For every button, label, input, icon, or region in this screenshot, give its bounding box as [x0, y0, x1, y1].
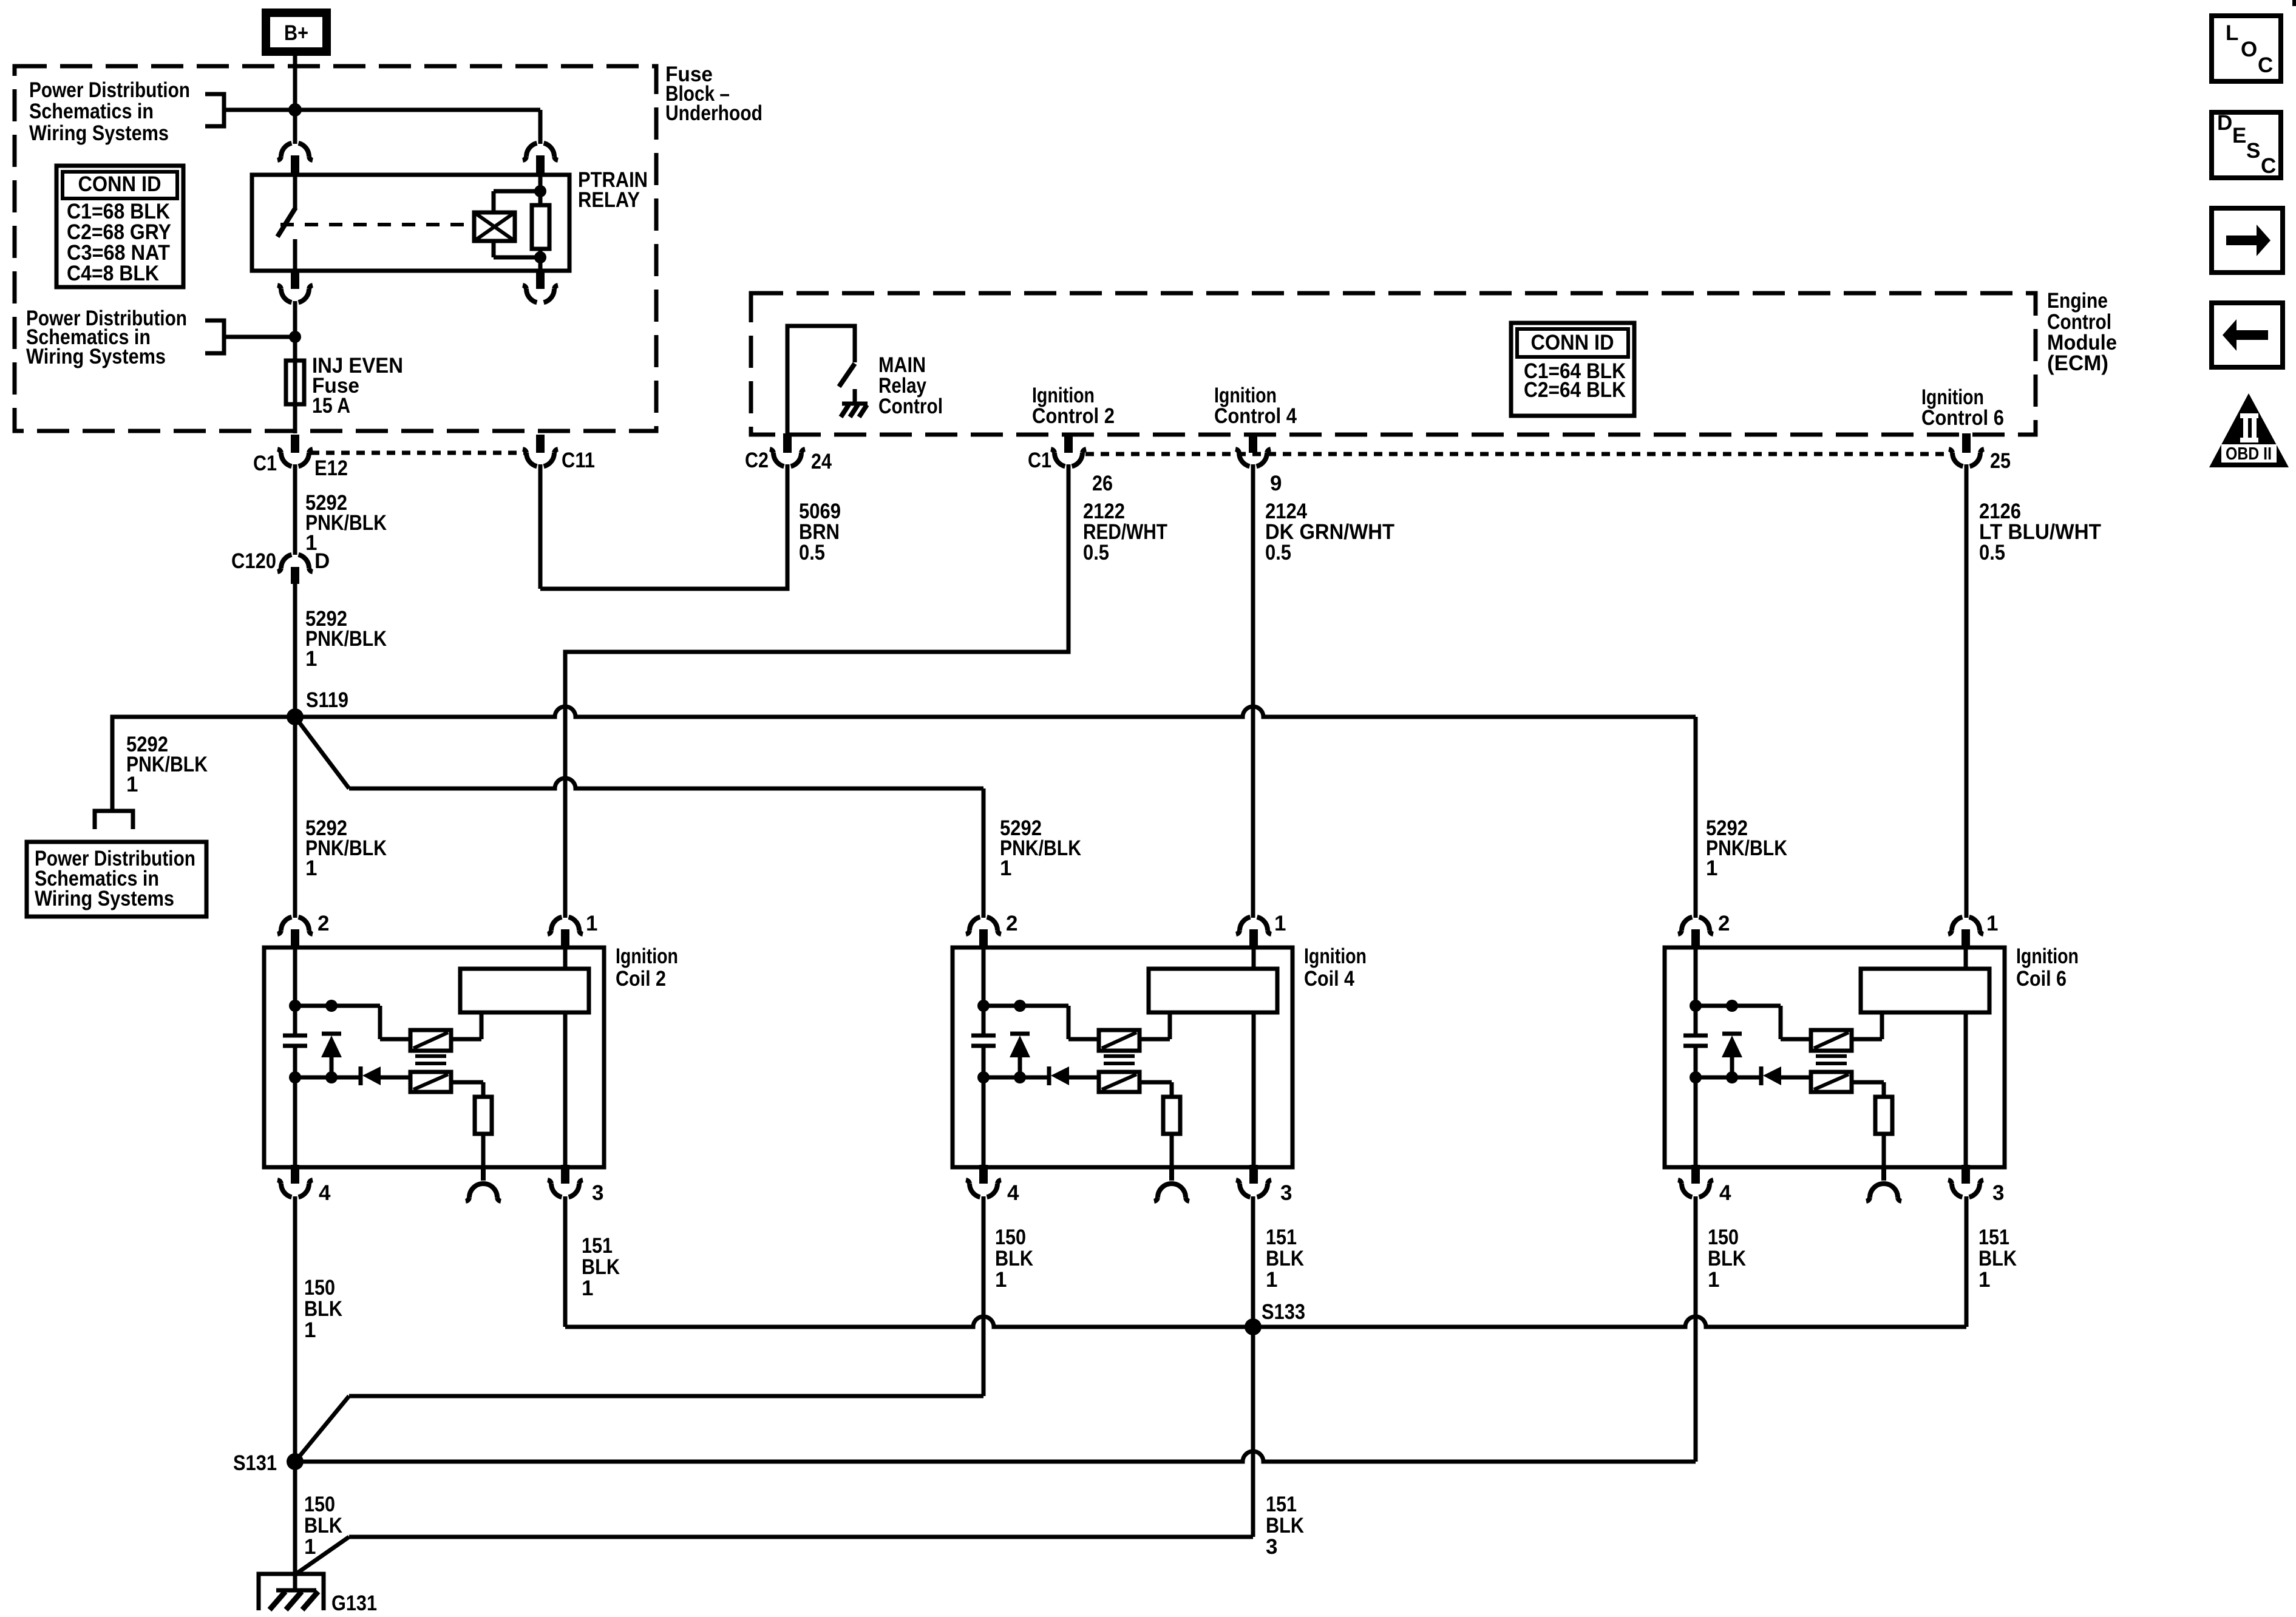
icon: LOC box — [2212, 16, 2281, 81]
coil 6 secondary winding — [1811, 1072, 1852, 1092]
svg-text:1: 1 — [304, 1535, 316, 1559]
relay pin line bottom — [538, 257, 543, 271]
relay junction dots — [534, 185, 546, 197]
coil 6 HV tower block — [1861, 969, 1989, 1012]
ignition coil 4 box — [953, 947, 1292, 1167]
connector cup: coil 4 pin 2 — [966, 917, 1001, 934]
svg-text:BLK: BLK — [582, 1255, 620, 1279]
connector cup: coil 4 pin 1 — [1236, 917, 1271, 934]
coil 6 capacitor — [1683, 1034, 1708, 1038]
coil 4 primary-to-tower lead — [1140, 1037, 1170, 1042]
coil 6 middle pin — [1881, 1166, 1886, 1181]
svg-text:1: 1 — [126, 773, 138, 796]
icon: forward arrow box — [2212, 208, 2283, 273]
coil 6 secondary lead — [1852, 1080, 1884, 1085]
svg-text:26: 26 — [1092, 472, 1113, 495]
svg-text:G131: G131 — [331, 1592, 377, 1615]
coil 4 transformer core — [1104, 1054, 1135, 1058]
relay coil leads — [492, 191, 496, 212]
splice S119 — [287, 708, 304, 725]
svg-text:PNK/BLK: PNK/BLK — [126, 753, 208, 776]
svg-text:BLK: BLK — [1266, 1514, 1304, 1537]
junction dot — [288, 103, 302, 117]
svg-text:3: 3 — [1266, 1535, 1277, 1559]
wire: coil6 pin4 down — [1694, 1196, 1698, 1462]
svg-text:BLK: BLK — [1266, 1247, 1304, 1270]
connector cup: relay pin (right top) — [523, 143, 558, 160]
coil 4 secondary winding — [1099, 1072, 1140, 1092]
connector cup: relay pin (right bottom) — [536, 269, 545, 289]
svg-text:150: 150 — [1708, 1225, 1739, 1249]
svg-text:BLK: BLK — [995, 1247, 1033, 1270]
coil 4 HV tower block — [1149, 969, 1277, 1012]
connector cup: coil 6 pin 1 — [1948, 917, 1983, 934]
connector face dotted line (ECM) — [1085, 452, 1948, 456]
svg-text:E12: E12 — [314, 456, 348, 480]
svg-text:0.5: 0.5 — [1083, 541, 1109, 564]
connector cup: coil 2 pin 2 — [277, 917, 313, 934]
svg-text:C4=8 BLK: C4=8 BLK — [67, 262, 159, 285]
wire: ignition control 6 (2126) — [1965, 464, 1969, 918]
svg-text:C1: C1 — [1028, 449, 1051, 472]
coil 2 lower node line — [295, 1076, 359, 1080]
wire: C1 to C120 — [293, 464, 297, 555]
icon: back arrow box — [2212, 303, 2283, 367]
svg-text:1: 1 — [1000, 856, 1011, 880]
coil 2 HV tower block — [460, 969, 589, 1012]
icon: OBD II triangle — [2209, 393, 2289, 467]
coil 6 primary winding — [1811, 1030, 1852, 1051]
coil 6 primary feed line — [1694, 949, 1698, 1036]
coil 2 node dots — [289, 1000, 301, 1012]
chassis ground (ECM internal) — [842, 402, 868, 406]
svg-text:3: 3 — [1280, 1181, 1292, 1205]
svg-text:BLK: BLK — [304, 1514, 342, 1537]
wire: fuse to connector C1 — [293, 404, 297, 433]
coil 2 top node line — [295, 1004, 380, 1008]
engine control module dashed box — [751, 293, 2036, 435]
page edge mark — [2292, 0, 2296, 6]
coil 6 top node line — [1696, 1004, 1781, 1008]
svg-text:C: C — [2258, 53, 2273, 77]
svg-text:E: E — [2232, 124, 2246, 147]
svg-text:150: 150 — [995, 1225, 1026, 1249]
wire: coil4 pin3 to S133 — [1251, 1196, 1255, 1327]
svg-text:9: 9 — [1270, 472, 1282, 495]
svg-text:CONN ID: CONN ID — [78, 172, 161, 196]
svg-text:Power Distribution: Power Distribution — [29, 78, 190, 102]
svg-text:C: C — [2261, 154, 2276, 178]
coil 4 top node line — [983, 1004, 1068, 1008]
coil 4 pin1 internal line — [1252, 949, 1256, 969]
svg-text:Control 6: Control 6 — [1921, 406, 2004, 430]
svg-text:S119: S119 — [306, 688, 348, 712]
svg-text:C1: C1 — [253, 452, 277, 475]
svg-text:151: 151 — [1266, 1493, 1297, 1516]
coil 6 pin1 internal line — [1964, 949, 1968, 969]
wire: bracket to fuse wire — [224, 335, 295, 339]
svg-text:2: 2 — [318, 912, 329, 935]
svg-text:S: S — [2246, 139, 2260, 163]
coil 4 internal resistor — [1163, 1097, 1180, 1134]
svg-text:1: 1 — [1708, 1268, 1719, 1292]
coil 6 node dots — [1690, 1000, 1702, 1012]
svg-text:0.5: 0.5 — [799, 541, 825, 564]
fuse INJ EVEN 15A — [286, 361, 304, 404]
coil 6 diode — [1759, 1066, 1764, 1085]
wire: C120 to S119 — [293, 584, 297, 717]
wire: S119 to coil 6 pin 2 — [295, 707, 1696, 717]
svg-text:PNK/BLK: PNK/BLK — [1000, 836, 1081, 860]
coil 4 capacitor — [971, 1034, 996, 1038]
svg-text:4: 4 — [1007, 1181, 1019, 1205]
coil 6 primary-to-tower lead — [1852, 1037, 1882, 1042]
svg-text:151: 151 — [582, 1234, 613, 1258]
coil 2 secondary lead — [451, 1080, 483, 1085]
svg-text:C2: C2 — [745, 449, 769, 472]
svg-text:BLK: BLK — [304, 1297, 342, 1321]
svg-text:PNK/BLK: PNK/BLK — [305, 836, 387, 860]
relay coil (crossed box) — [474, 212, 515, 241]
wire: S133 down to 151 line — [1251, 1327, 1255, 1537]
ground bus S133 line — [565, 1317, 1253, 1327]
connector cup: coil 4 pin 4 — [979, 1165, 988, 1184]
off-page bracket (mid note) — [205, 320, 224, 353]
wire: S119 diagonal to coil 4 pin 2 — [295, 717, 349, 788]
svg-text:0.5: 0.5 — [1265, 541, 1291, 564]
svg-text:150: 150 — [304, 1276, 335, 1300]
svg-text:OBD II: OBD II — [2226, 444, 2272, 464]
svg-text:S133: S133 — [1262, 1300, 1305, 1324]
coil 4 diode — [1047, 1066, 1051, 1085]
fuse block conn id table — [56, 166, 183, 287]
svg-text:RELAY: RELAY — [578, 188, 640, 212]
svg-text:Underhood: Underhood — [665, 101, 763, 125]
coil 6 lower node line — [1696, 1076, 1760, 1080]
svg-text:0.5: 0.5 — [1979, 541, 2005, 564]
svg-text:Wiring Systems: Wiring Systems — [35, 887, 174, 910]
svg-text:B+: B+ — [284, 21, 308, 45]
wire: coil2 pin3 to S133 — [563, 1196, 568, 1327]
ground G131 chassis mark — [276, 1588, 316, 1593]
svg-text:151: 151 — [1978, 1225, 2009, 1249]
relay resistor — [532, 205, 549, 249]
svg-text:1: 1 — [1706, 856, 1717, 880]
wire: main relay control 5069 — [540, 464, 787, 589]
svg-text:15 A: 15 A — [312, 394, 350, 418]
svg-text:Control: Control — [878, 395, 943, 418]
ECM pin 25 — [1962, 433, 1971, 453]
svg-text:C2=64 BLK: C2=64 BLK — [1524, 378, 1626, 402]
coil 2 secondary winding — [410, 1072, 451, 1092]
svg-text:1: 1 — [586, 912, 597, 935]
svg-text:Coil 6: Coil 6 — [2016, 967, 2067, 991]
wire: ignition control 2 (2122) — [565, 464, 1068, 918]
coil 4 secondary lead — [1140, 1080, 1172, 1085]
connector C11 (fuse block exit) — [536, 435, 545, 453]
battery feed B+ box — [266, 13, 327, 52]
wire: S119 branch left — [112, 717, 295, 810]
svg-text:1: 1 — [305, 531, 317, 555]
ECM pin C1/26 — [1064, 433, 1073, 453]
connector cup: relay pin (left top) — [277, 143, 313, 160]
svg-text:1: 1 — [305, 647, 317, 671]
coil 4 lower node line — [983, 1076, 1048, 1080]
coil 6 internal resistor — [1875, 1097, 1892, 1134]
svg-text:PNK/BLK: PNK/BLK — [1706, 836, 1787, 860]
coil 4 zener diode — [1010, 1032, 1030, 1036]
wire: B+ down to relay — [293, 56, 297, 144]
svg-text:3: 3 — [1992, 1181, 2004, 1205]
coil 2 zener diode — [322, 1032, 341, 1036]
connector cup: coil 2 pin 4 — [291, 1165, 299, 1184]
svg-text:Schematics in: Schematics in — [29, 100, 154, 123]
wire: S131 to coil6 pin4 — [295, 1451, 1696, 1462]
svg-text:Wiring Systems: Wiring Systems — [26, 345, 166, 368]
svg-text:1: 1 — [1986, 912, 1998, 935]
svg-text:PNK/BLK: PNK/BLK — [305, 511, 387, 535]
ignition coil 2 box — [264, 947, 604, 1167]
power distribution box (lower left) — [27, 842, 206, 917]
coil 4 primary feed line — [982, 949, 986, 1036]
wire: bracket to B+ node — [224, 108, 295, 112]
svg-text:L: L — [2226, 21, 2238, 45]
svg-text:O: O — [2241, 38, 2257, 61]
MAIN relay control driver — [787, 326, 855, 435]
connector C1 (fuse block exit) — [291, 435, 299, 453]
svg-text:CONN ID: CONN ID — [1531, 331, 1614, 354]
svg-text:1: 1 — [304, 1318, 316, 1342]
coil 2 capacitor — [283, 1034, 307, 1038]
wire: ignition control 4 (2124) — [1251, 464, 1255, 918]
coil 2 primary-to-tower lead — [451, 1037, 481, 1042]
connector cup: coil 4 pin 3 — [1249, 1165, 1258, 1184]
coil 4 middle pin — [1169, 1166, 1174, 1181]
wire: S119 to coil 2 pin 2 — [293, 717, 297, 918]
coil 2 diode — [359, 1066, 363, 1085]
svg-text:Ignition: Ignition — [616, 944, 678, 968]
coil 4 node dots — [977, 1000, 990, 1012]
coil 2 primary feed line — [293, 949, 297, 1036]
wire: coil4 pin4 to S131 line — [982, 1196, 986, 1396]
relay switch — [293, 175, 297, 208]
svg-text:Control 4: Control 4 — [1214, 404, 1297, 428]
svg-text:D: D — [2217, 111, 2232, 135]
svg-text:1: 1 — [305, 856, 317, 880]
coil 2 internal resistor — [475, 1097, 492, 1134]
svg-text:3: 3 — [592, 1181, 603, 1205]
connector cup: coil 2 pin 3 — [561, 1165, 569, 1184]
connector cup: coil 6 pin 4 — [1691, 1165, 1700, 1184]
connector cup: relay pin (left bottom) — [291, 269, 299, 289]
coil 6 zener diode — [1722, 1032, 1742, 1036]
svg-text:Ignition: Ignition — [2016, 944, 2079, 968]
splice S133 — [1245, 1318, 1262, 1335]
coil 6 transformer core — [1816, 1054, 1847, 1058]
ground G131 bracket — [259, 1574, 324, 1610]
splice S131 — [287, 1453, 304, 1470]
wire: S131 to ground — [293, 1462, 297, 1592]
connector cup: coil 6 pin 3 — [1961, 1165, 1970, 1184]
wire: branch to relay pin 2 — [295, 108, 540, 112]
svg-text:1: 1 — [995, 1268, 1007, 1292]
svg-text:PNK/BLK: PNK/BLK — [305, 627, 387, 651]
svg-text:C120: C120 — [231, 549, 276, 573]
svg-text:4: 4 — [1719, 1181, 1731, 1205]
svg-text:1: 1 — [1978, 1268, 1990, 1292]
svg-text:BLK: BLK — [1978, 1247, 2017, 1270]
fuse block dashed box — [15, 66, 656, 431]
connector cup: coil 6 pin 2 — [1678, 917, 1713, 934]
off-page bracket (S119 branch) — [95, 811, 133, 829]
svg-text:25: 25 — [1990, 449, 2011, 473]
relay linkage (dashed) — [280, 223, 474, 226]
svg-text:(ECM): (ECM) — [2047, 351, 2108, 375]
wire: C11 to corner — [538, 464, 543, 589]
svg-text:151: 151 — [1266, 1225, 1297, 1249]
relay pin line top — [538, 176, 543, 191]
svg-text:1: 1 — [1274, 912, 1286, 935]
coil 2 middle pin — [481, 1166, 486, 1181]
wire: relay to fuse — [293, 301, 297, 364]
connector cup: coil 2 pin 1 — [548, 917, 583, 934]
svg-text:4: 4 — [319, 1181, 331, 1205]
svg-text:C11: C11 — [562, 449, 595, 472]
coil 2 primary winding — [410, 1030, 451, 1051]
svg-text:150: 150 — [304, 1493, 335, 1516]
svg-text:1: 1 — [1266, 1268, 1277, 1292]
wire: coil2 pin4 to S131 — [293, 1196, 297, 1462]
wire: coil6 pin3 to S133 line — [1965, 1196, 1969, 1327]
junction dot (mid note) — [289, 331, 301, 343]
coil 4 primary winding — [1099, 1030, 1140, 1051]
svg-text:S131: S131 — [233, 1451, 277, 1475]
svg-text:1: 1 — [582, 1276, 593, 1300]
svg-text:Coil 4: Coil 4 — [1304, 967, 1354, 991]
inline connector C120 — [277, 555, 313, 572]
svg-text:2: 2 — [1006, 912, 1017, 935]
svg-text:24: 24 — [811, 450, 832, 473]
relay PTRAIN box — [252, 175, 569, 271]
ECM pin C2/24 — [783, 433, 792, 453]
connector face dotted line (fuse block) — [311, 451, 525, 455]
svg-text:Coil 2: Coil 2 — [616, 967, 666, 991]
icon: DESC box — [2212, 112, 2281, 178]
coil 2 pin1 internal line — [563, 949, 568, 969]
svg-text:Wiring Systems: Wiring Systems — [29, 121, 169, 145]
ignition coil 6 box — [1665, 947, 2005, 1167]
svg-text:2: 2 — [1718, 912, 1730, 935]
ECM pin 9 — [1249, 433, 1257, 453]
ECM conn id table — [1511, 323, 1634, 416]
svg-text:Engine: Engine — [2047, 289, 2108, 313]
off-page bracket (top note) — [205, 94, 224, 126]
svg-text:BLK: BLK — [1708, 1247, 1746, 1270]
coil 2 transformer core — [415, 1054, 446, 1058]
svg-text:Control 2: Control 2 — [1032, 404, 1115, 428]
svg-text:Ignition: Ignition — [1304, 944, 1367, 968]
